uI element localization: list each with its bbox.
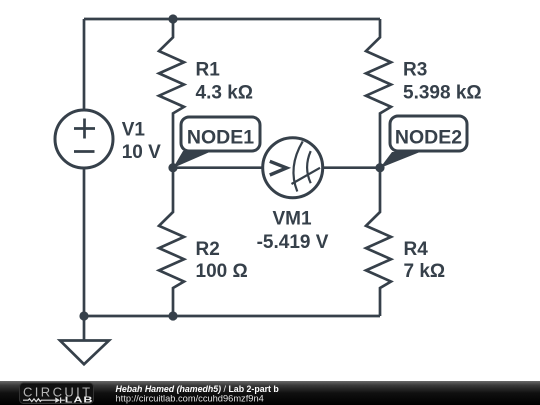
svg-text:NODE1: NODE1: [187, 126, 254, 148]
svg-text:R2: R2: [196, 239, 220, 260]
svg-text:100 Ω: 100 Ω: [196, 261, 248, 282]
svg-text:5.398 kΩ: 5.398 kΩ: [403, 83, 482, 104]
svg-text:R4: R4: [404, 239, 429, 260]
svg-text:LAB: LAB: [65, 395, 94, 405]
svg-text:http://circuitlab.com/ccuhd96m: http://circuitlab.com/ccuhd96mzf9n4: [116, 393, 264, 403]
svg-text:-5.419 V: -5.419 V: [257, 232, 329, 253]
svg-text:10 V: 10 V: [122, 142, 161, 163]
svg-text:7 kΩ: 7 kΩ: [404, 261, 446, 282]
svg-text:VM1: VM1: [272, 209, 312, 230]
svg-text:V1: V1: [122, 120, 146, 141]
svg-text:4.3 kΩ: 4.3 kΩ: [196, 83, 254, 104]
svg-text:R1: R1: [196, 59, 221, 80]
svg-text:NODE2: NODE2: [395, 127, 462, 149]
svg-text:R3: R3: [403, 59, 427, 80]
